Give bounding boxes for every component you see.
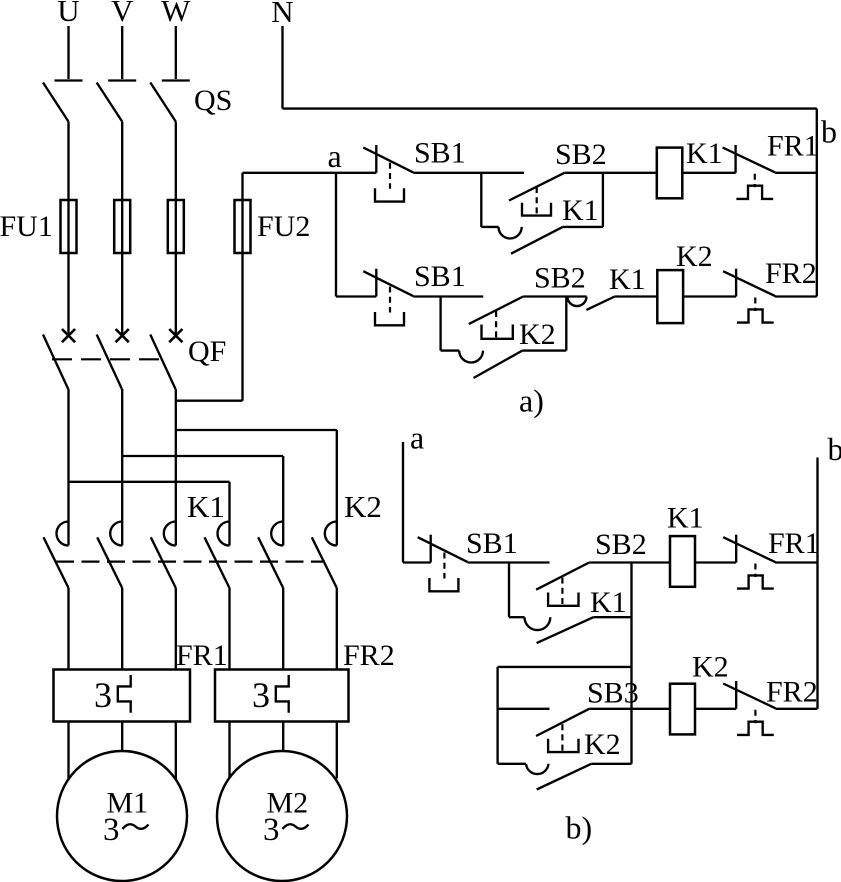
svg-text:SB2: SB2 <box>534 262 586 295</box>
svg-text:K2: K2 <box>692 650 729 683</box>
svg-text:K2: K2 <box>676 240 713 273</box>
svg-text:FR1: FR1 <box>768 527 820 560</box>
svg-text:V: V <box>111 0 134 28</box>
svg-text:FU2: FU2 <box>257 210 310 243</box>
svg-text:K1: K1 <box>667 502 704 535</box>
svg-text:W: W <box>161 0 191 28</box>
svg-text:SB2: SB2 <box>555 138 607 171</box>
svg-text:3: 3 <box>263 812 280 848</box>
svg-text:SB3: SB3 <box>587 677 639 710</box>
svg-text:FR2: FR2 <box>765 257 817 290</box>
svg-text:FR2: FR2 <box>343 639 395 672</box>
svg-text:a: a <box>328 138 342 174</box>
svg-text:b): b) <box>566 810 593 846</box>
svg-text:a: a <box>410 420 424 456</box>
svg-text:K1: K1 <box>590 586 627 619</box>
svg-text:b: b <box>828 431 841 467</box>
svg-text:SB1: SB1 <box>414 260 466 293</box>
svg-text:K2: K2 <box>344 489 382 524</box>
svg-text:b: b <box>821 114 837 150</box>
svg-text:QF: QF <box>188 335 226 368</box>
svg-text:K1: K1 <box>686 137 723 170</box>
svg-text:K1: K1 <box>609 263 646 296</box>
svg-text:FR1: FR1 <box>176 639 228 672</box>
svg-text:K2: K2 <box>584 728 621 761</box>
svg-text:N: N <box>271 0 293 29</box>
svg-text:SB1: SB1 <box>466 527 518 560</box>
svg-text:FU1: FU1 <box>0 210 53 243</box>
svg-text:3: 3 <box>94 675 112 715</box>
svg-text:K1: K1 <box>562 194 599 227</box>
svg-text:SB2: SB2 <box>595 528 647 561</box>
svg-text:U: U <box>57 0 79 28</box>
svg-text:3: 3 <box>252 675 270 715</box>
svg-text:SB1: SB1 <box>414 137 466 170</box>
svg-text:K1: K1 <box>187 489 225 524</box>
svg-text:3: 3 <box>103 812 120 848</box>
svg-text:QS: QS <box>194 84 232 117</box>
svg-text:K2: K2 <box>519 318 556 351</box>
svg-text:a): a) <box>519 383 544 419</box>
svg-text:FR2: FR2 <box>766 676 818 709</box>
svg-text:FR1: FR1 <box>767 130 819 163</box>
